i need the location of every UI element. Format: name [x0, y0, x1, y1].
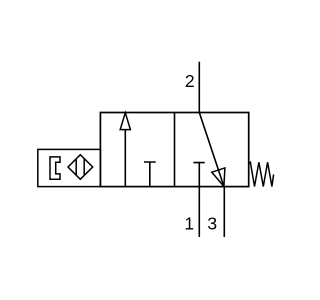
svg-text:2: 2 [185, 71, 195, 91]
left cell flow arrowhead [120, 113, 130, 130]
right cell blocked port T (port 1) [193, 163, 204, 187]
diamond inner chord left [75, 159, 77, 175]
port 3 wire [223, 187, 225, 237]
right cell diagonal arrowhead [212, 168, 225, 187]
solenoid actuator box [38, 149, 101, 186]
port 2 wire [198, 62, 200, 113]
left cell blocked port T (port 3) [144, 162, 156, 187]
svg-text:1: 1 [184, 213, 194, 233]
position divider wire [174, 113, 176, 187]
diamond inner chord right [83, 159, 85, 176]
pilot amplifier diamond [68, 155, 93, 180]
right cell diagonal wire (port 2 to 3) [199, 113, 224, 187]
left cell flow arrow line (port 1 to 2) [124, 129, 126, 186]
solenoid coil bracket symbol [50, 157, 60, 179]
port 1 wire [198, 187, 200, 237]
valve body outline [100, 113, 248, 187]
spring return [249, 162, 274, 186]
svg-text:3: 3 [207, 213, 217, 233]
